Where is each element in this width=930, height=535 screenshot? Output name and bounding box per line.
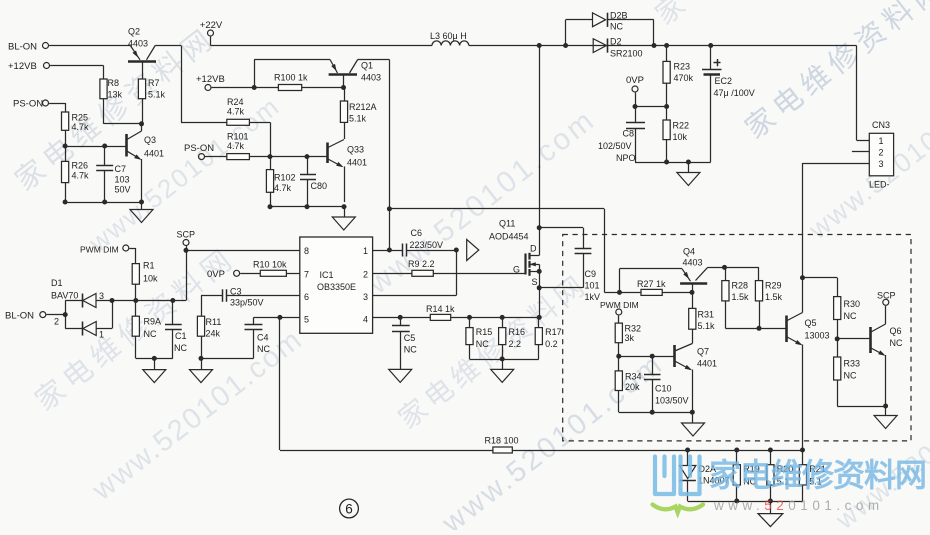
svg-text:3: 3 <box>878 159 883 169</box>
svg-text:4.7k: 4.7k <box>274 183 292 193</box>
svg-text:C6: C6 <box>411 228 423 238</box>
svg-text:R24: R24 <box>227 97 244 107</box>
svg-text:R30: R30 <box>844 299 861 309</box>
svg-text:0.2: 0.2 <box>545 339 558 349</box>
svg-text:5.1k: 5.1k <box>148 90 166 100</box>
svg-text:223/50V: 223/50V <box>410 240 444 250</box>
svg-text:13k: 13k <box>108 90 123 100</box>
svg-text:103: 103 <box>115 175 130 185</box>
svg-text:OB3350E: OB3350E <box>317 282 356 292</box>
svg-text:R1: R1 <box>143 261 155 271</box>
svg-text:R8: R8 <box>108 78 120 88</box>
svg-text:4.7k: 4.7k <box>227 107 245 117</box>
svg-text:NC: NC <box>890 338 903 348</box>
svg-text:R14 1k: R14 1k <box>426 304 455 314</box>
svg-text:3: 3 <box>363 292 368 302</box>
svg-text:NC: NC <box>844 311 857 321</box>
svg-text:Q3: Q3 <box>144 135 156 145</box>
svg-text:S: S <box>532 277 538 287</box>
svg-text:0VP: 0VP <box>207 269 225 280</box>
svg-text:+12VB: +12VB <box>196 74 225 85</box>
svg-text:LED-: LED- <box>869 180 890 190</box>
svg-text:1: 1 <box>363 246 368 256</box>
svg-text:4.7k: 4.7k <box>227 141 245 151</box>
svg-text:Q2: Q2 <box>128 27 140 37</box>
svg-text:G: G <box>513 265 520 275</box>
svg-text:D2: D2 <box>610 37 622 47</box>
svg-text:2.2: 2.2 <box>509 339 522 349</box>
svg-text:R16: R16 <box>509 327 526 337</box>
svg-text:BL-ON: BL-ON <box>8 42 37 53</box>
svg-text:4403: 4403 <box>361 73 381 83</box>
svg-text:1.5k: 1.5k <box>732 292 750 302</box>
svg-text:C7: C7 <box>115 164 127 174</box>
svg-text:R26: R26 <box>72 161 89 171</box>
svg-text:5.1k: 5.1k <box>698 321 716 331</box>
svg-text:R102: R102 <box>274 173 296 183</box>
svg-text:R15: R15 <box>476 327 493 337</box>
svg-text:Q7: Q7 <box>697 347 709 357</box>
svg-text:4401: 4401 <box>697 359 717 369</box>
svg-text:R9A: R9A <box>144 317 162 327</box>
svg-text:L3 60μ H: L3 60μ H <box>430 31 467 41</box>
svg-text:R32: R32 <box>625 324 642 334</box>
svg-text:4401: 4401 <box>144 149 164 159</box>
svg-text:D: D <box>530 244 537 254</box>
svg-text:EC2: EC2 <box>715 76 733 86</box>
svg-text:0VP: 0VP <box>626 75 644 86</box>
svg-text:20k: 20k <box>625 382 640 392</box>
svg-text:470k: 470k <box>674 73 694 83</box>
svg-text:NC: NC <box>257 344 270 354</box>
svg-text:101: 101 <box>585 281 600 291</box>
svg-text:www.520101.com: www.520101.com <box>713 498 884 513</box>
svg-text:R33: R33 <box>844 359 861 369</box>
svg-text:1.5k: 1.5k <box>765 292 783 302</box>
svg-text:4: 4 <box>363 315 368 325</box>
svg-text:R212A: R212A <box>349 102 377 112</box>
svg-text:24k: 24k <box>206 329 221 339</box>
svg-text:4403: 4403 <box>683 258 703 268</box>
svg-text:R100 1k: R100 1k <box>274 73 308 83</box>
svg-text:R101: R101 <box>227 132 249 142</box>
svg-text:R34: R34 <box>625 372 642 382</box>
svg-text:1kV: 1kV <box>585 292 601 302</box>
svg-text:NC: NC <box>844 371 857 381</box>
svg-text:6: 6 <box>304 292 309 302</box>
svg-text:R9 2.2: R9 2.2 <box>408 259 435 269</box>
svg-text:NC: NC <box>144 329 157 339</box>
svg-text:50V: 50V <box>115 185 131 195</box>
svg-text:Q6: Q6 <box>890 326 902 336</box>
svg-text:4401: 4401 <box>347 158 367 168</box>
svg-text:3: 3 <box>99 291 104 301</box>
svg-text:1: 1 <box>99 330 104 340</box>
svg-text:PS-ON: PS-ON <box>184 143 214 154</box>
svg-text:SR2100: SR2100 <box>610 49 643 59</box>
svg-text:33p/50V: 33p/50V <box>230 298 264 308</box>
svg-text:5: 5 <box>304 315 309 325</box>
svg-text:BL-ON: BL-ON <box>5 311 34 322</box>
svg-text:CN3: CN3 <box>872 120 890 130</box>
svg-text:4.7k: 4.7k <box>72 171 90 181</box>
svg-text:NC: NC <box>174 343 187 353</box>
svg-text:C4: C4 <box>257 333 269 343</box>
svg-text:R23: R23 <box>674 62 691 72</box>
svg-text:NC: NC <box>404 345 417 355</box>
svg-text:C8: C8 <box>623 129 635 139</box>
svg-text:1: 1 <box>878 136 883 146</box>
svg-text:D1: D1 <box>51 278 63 288</box>
svg-text:4.7k: 4.7k <box>72 122 90 132</box>
svg-text:R22: R22 <box>673 121 690 131</box>
svg-text:R10 10k: R10 10k <box>253 260 287 270</box>
svg-text:8: 8 <box>304 246 309 256</box>
svg-text:C3: C3 <box>230 287 242 297</box>
svg-text:R7: R7 <box>148 78 160 88</box>
svg-text:SCP: SCP <box>177 230 196 240</box>
svg-text:7: 7 <box>304 270 309 280</box>
svg-text:Q1: Q1 <box>361 61 373 71</box>
svg-text:R11: R11 <box>206 317 222 327</box>
svg-text:C10: C10 <box>655 384 672 394</box>
svg-text:C80: C80 <box>311 181 328 191</box>
svg-text:Q11: Q11 <box>499 219 515 229</box>
svg-text:家电维修资料网: 家电维修资料网 <box>709 457 926 493</box>
svg-text:R28: R28 <box>732 281 749 291</box>
svg-text:+12VB: +12VB <box>8 61 37 72</box>
svg-text:R17: R17 <box>545 327 562 337</box>
svg-text:R27 1k: R27 1k <box>637 279 666 289</box>
svg-text:10k: 10k <box>673 132 688 142</box>
svg-text:R31: R31 <box>698 310 715 320</box>
svg-text:5.1k: 5.1k <box>349 114 367 124</box>
svg-text:C1: C1 <box>175 331 187 341</box>
svg-text:4403: 4403 <box>128 39 148 49</box>
svg-text:NC: NC <box>610 22 623 32</box>
svg-text:2: 2 <box>54 317 59 327</box>
svg-text:BAV70: BAV70 <box>51 291 78 301</box>
svg-text:2: 2 <box>363 270 368 280</box>
svg-text:6: 6 <box>345 501 353 516</box>
svg-text:NC: NC <box>476 339 489 349</box>
svg-text:R29: R29 <box>765 281 782 291</box>
svg-text:Q33: Q33 <box>347 145 364 155</box>
svg-text:C9: C9 <box>585 269 597 279</box>
svg-text:NPO: NPO <box>616 153 636 163</box>
svg-text:10k: 10k <box>143 274 158 284</box>
svg-text:3k: 3k <box>625 333 635 343</box>
svg-text:2: 2 <box>878 148 883 158</box>
svg-text:103/50V: 103/50V <box>655 396 689 406</box>
svg-text:Q4: Q4 <box>683 247 695 257</box>
svg-text:47μ /100V: 47μ /100V <box>714 88 755 98</box>
svg-text:PS-ON: PS-ON <box>13 99 43 110</box>
svg-text:102/50V: 102/50V <box>598 141 632 151</box>
svg-text:13003: 13003 <box>805 331 830 341</box>
svg-text:R18 100: R18 100 <box>485 436 519 446</box>
svg-text:D2B: D2B <box>610 11 628 21</box>
svg-text:+22V: +22V <box>200 20 223 31</box>
svg-text:C5: C5 <box>404 333 416 343</box>
svg-text:Q5: Q5 <box>805 318 817 328</box>
svg-text:AOD4454: AOD4454 <box>489 232 529 242</box>
svg-text:PWM DIM: PWM DIM <box>80 245 119 255</box>
svg-text:IC1: IC1 <box>320 270 334 280</box>
